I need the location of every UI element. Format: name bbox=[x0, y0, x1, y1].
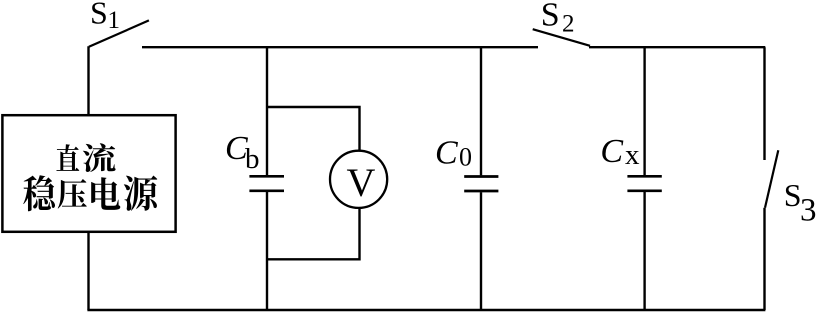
svg-text:C: C bbox=[600, 133, 623, 170]
svg-text:0: 0 bbox=[459, 143, 472, 172]
svg-text:x: x bbox=[625, 139, 640, 171]
svg-text:S: S bbox=[90, 0, 108, 30]
svg-text:C: C bbox=[435, 135, 458, 172]
svg-text:b: b bbox=[245, 143, 260, 175]
svg-text:S: S bbox=[541, 0, 560, 33]
svg-text:1: 1 bbox=[108, 7, 121, 34]
svg-text:V: V bbox=[347, 160, 376, 205]
svg-text:3: 3 bbox=[800, 193, 816, 229]
svg-text:2: 2 bbox=[562, 11, 575, 38]
svg-text:S: S bbox=[784, 177, 802, 213]
